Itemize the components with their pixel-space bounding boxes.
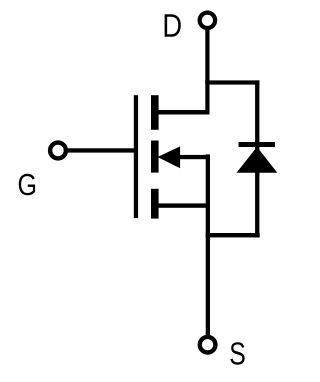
wire bottom branch to diode bbox=[206, 233, 260, 237]
transistor Q1 body bar bbox=[151, 141, 159, 173]
transistor Q1 drain bar bbox=[151, 95, 159, 130]
wire source vertical bbox=[206, 154, 210, 335]
wire gate lead bbox=[64, 148, 136, 152]
transistor Q1 body arrow bbox=[158, 146, 181, 168]
wire top branch to diode bbox=[205, 80, 259, 84]
transistor Q1 source bar bbox=[151, 189, 159, 219]
wire diode branch vertical bbox=[255, 80, 259, 237]
label S bbox=[230, 342, 244, 364]
diode D1 anode triangle bbox=[237, 147, 278, 173]
terminal G bbox=[50, 143, 66, 159]
wire body connection bbox=[172, 155, 210, 159]
terminal S bbox=[200, 337, 216, 353]
transistor Q1 gate bar bbox=[134, 95, 138, 218]
wire source stub bbox=[159, 203, 211, 207]
label G bbox=[19, 174, 35, 196]
wire drain stub bbox=[159, 110, 210, 115]
terminal D bbox=[200, 13, 215, 28]
wire drain vertical bbox=[205, 28, 209, 115]
diode D1 cathode bar bbox=[239, 142, 276, 147]
label D bbox=[165, 14, 181, 36]
